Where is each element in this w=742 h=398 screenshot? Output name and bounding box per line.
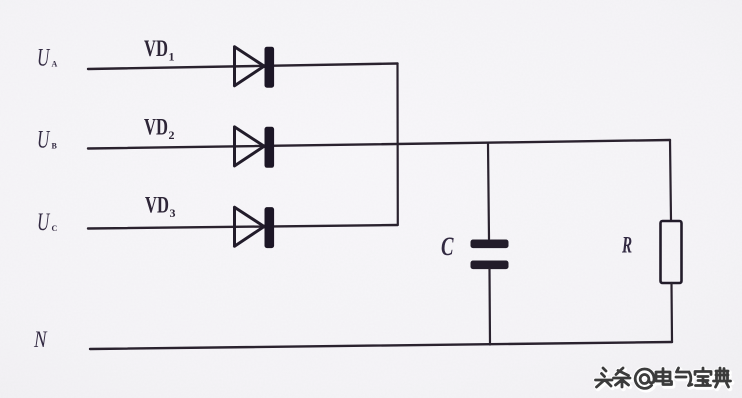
node Ua label xyxy=(37,43,58,71)
svg-text:U: U xyxy=(37,43,51,71)
wire capacitor branch upper xyxy=(488,144,489,239)
svg-text:N: N xyxy=(33,326,47,352)
svg-text:3: 3 xyxy=(170,206,176,220)
node Uc label xyxy=(37,208,58,236)
wire right vertical lower xyxy=(670,283,673,342)
label VD1 xyxy=(144,36,175,63)
label C xyxy=(441,232,454,261)
label VD2 xyxy=(144,115,175,142)
svg-text:U: U xyxy=(37,125,51,153)
svg-text:R: R xyxy=(621,234,632,259)
svg-text:2: 2 xyxy=(169,128,175,142)
svg-text:VD: VD xyxy=(144,36,168,61)
resistor R xyxy=(661,221,682,283)
svg-text:1: 1 xyxy=(169,50,175,64)
wire neutral bottom xyxy=(90,342,672,349)
svg-text:C: C xyxy=(52,224,58,233)
svg-text:C: C xyxy=(441,232,454,261)
svg-text:VD: VD xyxy=(144,115,168,140)
capacitor C xyxy=(471,240,509,270)
label VD3 xyxy=(145,193,176,220)
wire bus vertical (row1 to row3) xyxy=(396,64,398,226)
diode VD3 xyxy=(235,207,275,248)
node Ub label xyxy=(37,125,58,153)
diode VD1 xyxy=(235,47,275,88)
wire row2 xyxy=(88,140,670,149)
wire capacitor branch lower xyxy=(488,269,491,345)
watermark 头条 @电气宝典 xyxy=(595,367,732,390)
svg-text:U: U xyxy=(37,208,51,236)
svg-text:A: A xyxy=(52,60,58,69)
wire row1 xyxy=(88,64,398,70)
svg-text:B: B xyxy=(52,142,58,151)
wire right vertical upper xyxy=(670,140,671,221)
svg-text:VD: VD xyxy=(145,193,169,218)
wire row3 xyxy=(88,225,398,229)
diode VD2 xyxy=(235,127,275,168)
node N label xyxy=(33,326,47,352)
label R xyxy=(621,234,632,259)
